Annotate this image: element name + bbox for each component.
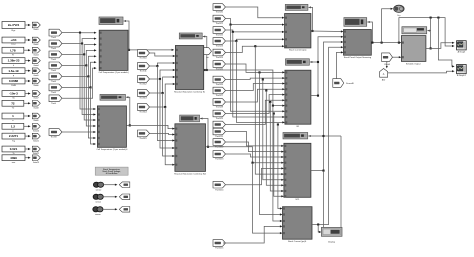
svg-text:Clock5: Clock5 xyxy=(384,64,391,66)
wire tag T5 to block A input 5 xyxy=(225,46,283,52)
wire tag T3 branch to block B input 9 xyxy=(232,31,234,33)
from tag H6 xyxy=(138,130,150,137)
from tag From40 xyxy=(333,79,344,88)
svg-text:sensor: sensor xyxy=(96,188,102,191)
svg-text:TheG: TheG xyxy=(51,70,56,72)
svg-text:TheG: TheG xyxy=(51,37,56,39)
wire tag T13 to block C input 2 xyxy=(225,142,283,152)
from tag T1 xyxy=(213,4,226,11)
wire top rail branch to scope 2 input 1 xyxy=(437,17,439,19)
constant Rgc value 2e-3*2/4 xyxy=(2,22,25,29)
wire From40 up to block E input 5 xyxy=(337,52,343,78)
svg-text:Scp: Scp xyxy=(397,15,400,17)
svg-text:wm: wm xyxy=(12,162,16,164)
from tag H1 xyxy=(138,50,150,57)
svg-text:TheG215: TheG215 xyxy=(215,248,224,250)
svg-text:TheG21: TheG21 xyxy=(216,23,224,25)
wire tag T6 to block B input 1 xyxy=(225,64,284,72)
wire branch U4 output down to block D input 5 xyxy=(251,162,253,164)
svg-text:& Fan Airflow: & Fan Airflow xyxy=(106,172,118,175)
svg-text:TheG29: TheG29 xyxy=(216,118,224,120)
subsystem U4 Reactant Saturation 1 xyxy=(175,124,206,172)
goto tag G1 xyxy=(32,22,40,28)
wire branch up to top rail toward scope 1 xyxy=(398,42,400,44)
wire from tag H1 to subsystem U3 input 2 xyxy=(150,53,175,56)
display bar DC xyxy=(283,133,308,139)
wire tag T2 branch to block B input 8 xyxy=(229,24,231,26)
wire constant Ts to tag xyxy=(25,148,30,150)
svg-text:TheG8: TheG8 xyxy=(50,137,57,139)
from tag T11 xyxy=(213,121,226,128)
wire constant wm to tag xyxy=(25,157,30,159)
svg-text:TOC: TOC xyxy=(11,44,16,46)
wire branch down to subsystem U2 input 1 xyxy=(79,32,81,34)
svg-text:4399: 4399 xyxy=(10,156,17,160)
goto tag G8 xyxy=(32,101,40,107)
display bar D1 xyxy=(99,17,123,25)
wire constant k to tag xyxy=(25,60,30,62)
wire branch tag H2 down to subsystem U4 xyxy=(156,65,158,67)
wire constant T2 to tag xyxy=(24,102,30,104)
wire tag T10 to block B input 5 xyxy=(225,95,284,114)
svg-text:Goto2: Goto2 xyxy=(33,43,38,46)
wire display bar D2 feed loop xyxy=(126,96,128,98)
wire display bar D1 feed loop xyxy=(124,20,126,22)
wire block D output to numeric display xyxy=(317,223,319,225)
wire tag T8 to block B input 3 xyxy=(225,84,284,91)
from tag T7 xyxy=(213,76,226,83)
wire tag T3 to block A input 3 xyxy=(225,30,283,32)
wire block B output up to block E input 2 with display feed xyxy=(311,37,342,96)
svg-text:Cell Temperature (1 per module: Cell Temperature (1 per module) xyxy=(99,71,129,74)
svg-text:Goto4: Goto4 xyxy=(33,64,38,67)
wire from tag F3 to subsystem U1 input 3 xyxy=(62,45,95,55)
wire branch down to subsystem U2 input 5 xyxy=(87,75,89,77)
svg-text:Display: Display xyxy=(328,242,336,244)
wire block F output to scope 1 input 1 xyxy=(426,43,453,49)
subsystem U1 Cell Temperature xyxy=(99,30,128,70)
from tag T16 xyxy=(213,240,226,247)
wire constant Vo to tag xyxy=(25,93,30,95)
block D Stack Current 1 xyxy=(283,207,313,240)
wire tag T9 branch down to block C input 9 xyxy=(269,101,271,103)
goto tag G3 xyxy=(32,47,40,53)
wire tag T7 to block B input 2 xyxy=(225,78,284,79)
constant R value L78 xyxy=(2,47,24,53)
wire from tag F4 to subsystem U1 input 4 xyxy=(62,50,95,65)
wire branch down to subsystem U2 input 6 xyxy=(89,86,91,88)
wire from tag F1 to subsystem U1 input 1 xyxy=(62,32,95,34)
block E Stack Panel Output Summing xyxy=(344,30,372,56)
wire top rail branch down through display bar DF to block F output xyxy=(430,17,432,19)
svg-text:TheG214: TheG214 xyxy=(215,189,224,191)
wire display bar DA feed loop xyxy=(309,6,311,8)
clock source block xyxy=(382,53,393,62)
wire goto tag A to scope 2 input 2 xyxy=(388,71,454,73)
wire constant R to tag xyxy=(24,49,30,51)
from tag T4 xyxy=(213,38,226,45)
wire tag T4 branch to block B input 10 xyxy=(235,40,237,42)
wire subsystem U4 output to block C input 4 xyxy=(206,147,283,163)
wire tag T2 to block A input 2 xyxy=(225,19,283,25)
svg-text:0.0688: 0.0688 xyxy=(9,79,19,83)
svg-text:TheG212: TheG212 xyxy=(215,147,224,149)
svg-text:Goto13: Goto13 xyxy=(33,161,39,164)
svg-text:TheG26: TheG26 xyxy=(216,84,224,86)
block F Simulink Output xyxy=(401,36,426,62)
wire constant x to tag xyxy=(24,125,30,127)
svg-text:1.6e-19: 1.6e-19 xyxy=(8,69,19,73)
svg-text:TheG13: TheG13 xyxy=(139,98,147,100)
svg-text:From40: From40 xyxy=(346,82,354,85)
svg-text:TheG27: TheG27 xyxy=(216,95,224,97)
goto tag G11 xyxy=(32,133,40,139)
wire from tag F2 to subsystem U1 input 2 xyxy=(62,39,95,44)
wire tag T7 branch down to block C input 7 xyxy=(262,78,264,80)
wire branch tag H3 down to subsystem U4 xyxy=(159,78,161,80)
wire block C output up to block E input 3 xyxy=(311,42,342,171)
svg-text:A/D: A/D xyxy=(382,78,386,81)
block B subsystem xyxy=(285,70,311,124)
from tag H2 xyxy=(138,63,150,70)
constant q value 1.6e-19 xyxy=(2,68,25,74)
wire branch tag H4 down to subsystem U4 xyxy=(162,92,164,94)
wire tag T15 up to block C input 5 xyxy=(225,168,283,184)
svg-text:A Graph1: A Graph1 xyxy=(457,74,467,77)
wire clock branch down to goto tag A xyxy=(386,62,388,68)
svg-text:1.2: 1.2 xyxy=(11,124,16,128)
from tag T6 xyxy=(213,61,226,68)
svg-text:Cell Temperature (1 per module: Cell Temperature (1 per module)1 xyxy=(96,148,128,151)
svg-text:TheG12: TheG12 xyxy=(139,84,147,86)
wire tag T11 branch down to block D input 1 xyxy=(277,123,279,125)
svg-text:Goto5: Goto5 xyxy=(33,74,38,77)
goto tag H0 xyxy=(204,48,212,55)
wire constant n to tag xyxy=(24,115,30,117)
constant Tig value 2.2271 xyxy=(2,133,25,139)
numeric display block xyxy=(321,227,342,236)
wire oval 1 to from tag xyxy=(104,184,117,186)
goto tag G13 xyxy=(32,155,40,161)
wire tag T9 to block B input 4 xyxy=(225,89,284,102)
svg-text:-10e-3: -10e-3 xyxy=(9,92,18,96)
legend text box xyxy=(95,167,128,175)
wire branch down to subsystem U2 input 3 xyxy=(83,53,85,55)
goto tag G2 xyxy=(32,37,40,43)
from tag F8 xyxy=(49,129,62,136)
goto tag G9 xyxy=(32,113,40,119)
input oval pair 2 xyxy=(93,194,99,199)
wire from tag F6 to subsystem U1 input 6 xyxy=(62,62,95,87)
from tag H4 xyxy=(138,90,150,97)
wire oval 2 to from tag xyxy=(103,196,116,198)
wire display bar DE feed loop xyxy=(367,21,369,23)
from tag F4 xyxy=(49,62,62,69)
svg-text:TheG22: TheG22 xyxy=(216,35,224,37)
wire tag T4 to block A input 4 xyxy=(225,39,283,41)
svg-text:Stack Current (ips)1: Stack Current (ips)1 xyxy=(288,240,307,243)
wire display bar DC feed xyxy=(308,135,310,137)
from tag F1 xyxy=(49,29,62,36)
from tag P2 xyxy=(119,194,130,200)
wire constant q to tag xyxy=(25,70,30,72)
wire branch down to subsystem U2 input 2 xyxy=(81,42,83,44)
wire constant TOC to tag xyxy=(25,39,30,41)
svg-text:TheG: TheG xyxy=(51,81,56,83)
svg-text:2.2271: 2.2271 xyxy=(9,134,19,138)
wire from tag F8 to subsystem U2 xyxy=(62,131,95,133)
svg-text:L78: L78 xyxy=(10,48,16,52)
display bar DE xyxy=(344,18,367,27)
svg-text:Reactant Saturation Control (p: Reactant Saturation Control (p S)1 xyxy=(174,172,207,175)
svg-text:72: 72 xyxy=(11,101,15,105)
display bar D2 xyxy=(100,94,125,100)
goto tag G4 xyxy=(32,58,40,64)
svg-text:TheG24: TheG24 xyxy=(216,57,224,59)
scope block A Graph1 xyxy=(457,65,467,74)
constant T2 value 72 xyxy=(2,100,24,106)
from tag F2 xyxy=(49,40,62,47)
svg-text:TheG10: TheG10 xyxy=(139,58,147,60)
goto tag G7 xyxy=(32,91,40,97)
constant Ts value 0.021 xyxy=(2,146,25,152)
svg-text:Goto1: Goto1 xyxy=(33,28,38,31)
svg-text:0.021: 0.021 xyxy=(10,147,18,151)
svg-text:Goto8: Goto8 xyxy=(33,107,38,110)
constant wm value 4399 xyxy=(2,155,25,161)
svg-text:Simulink Output: Simulink Output xyxy=(406,62,421,65)
svg-text:Goto9: Goto9 xyxy=(33,119,38,122)
wire oval 3 to from tag xyxy=(103,208,116,210)
from tag H3 xyxy=(138,76,150,83)
svg-text:TheG14: TheG14 xyxy=(139,112,147,114)
goto tag G6 xyxy=(32,78,40,84)
goto tag G12 xyxy=(32,146,40,152)
from tag T14 xyxy=(213,151,226,158)
from tag P1 xyxy=(119,182,130,188)
display bar DA xyxy=(285,4,308,10)
input oval pair 3 xyxy=(93,207,99,212)
svg-text:Stack Panel Output Summing: Stack Panel Output Summing xyxy=(344,56,372,59)
block A Stack Current xyxy=(285,14,311,48)
display bar DB xyxy=(286,59,310,65)
wire block D output up to block E input 4 xyxy=(312,47,342,224)
svg-text:TheG: TheG xyxy=(51,103,56,105)
svg-text:Stack Current (ips): Stack Current (ips) xyxy=(289,49,307,52)
from tag T3 xyxy=(213,27,226,34)
wire subsystem U1 output to subsystem U3 xyxy=(128,49,173,51)
goto tag G10 xyxy=(32,124,40,130)
wire block A output to block E input 1 xyxy=(311,30,342,33)
wire constant Rgc to tag xyxy=(25,24,30,26)
wire from tag H3 to subsystem U3 input 4 xyxy=(150,70,175,79)
from tag H5 xyxy=(138,104,150,111)
wire branch to numeric display via x341 xyxy=(324,135,342,137)
svg-text:TheG15: TheG15 xyxy=(139,138,147,140)
wire from tag F7 to subsystem U1 input 7 xyxy=(62,68,95,98)
constant TOC value +2/4 xyxy=(2,37,25,43)
svg-text:+2/4: +2/4 xyxy=(11,38,17,42)
wire tag T8 branch down to block C input 8 xyxy=(265,89,267,91)
svg-text:DHB: DHB xyxy=(11,85,16,87)
display bar D3 xyxy=(179,33,202,39)
svg-text:Goto11: Goto11 xyxy=(33,139,39,142)
constant k value 1.38e-23 xyxy=(2,58,25,64)
svg-text:Goto10: Goto10 xyxy=(33,130,39,133)
svg-text:TheG: TheG xyxy=(51,59,56,61)
wire tag T14 to block C input 3 xyxy=(225,154,283,157)
constant DHB value 0.0688 xyxy=(2,78,25,84)
svg-text:Goto6: Goto6 xyxy=(33,84,38,87)
input oval pair 1 xyxy=(93,182,99,187)
svg-text:TheG20: TheG20 xyxy=(216,12,224,14)
svg-text:sensor: sensor xyxy=(95,213,101,216)
wire branch tag H5 down to subsystem U4 xyxy=(164,106,166,108)
constant Vo value -10e-3 xyxy=(2,91,25,97)
constant n value 1 xyxy=(2,113,24,119)
svg-text:TheG213: TheG213 xyxy=(215,159,224,161)
from tag F7 xyxy=(49,95,62,102)
svg-text:1.38e-23: 1.38e-23 xyxy=(8,59,20,63)
wire tag T10 branch down to block C input 10 xyxy=(273,112,275,114)
subsystem U3 Reactant Saturation xyxy=(175,46,203,90)
wire from tag H2 to subsystem U3 input 3 xyxy=(150,63,175,66)
from tag T10 xyxy=(213,110,226,117)
svg-text:TheG11: TheG11 xyxy=(139,71,147,73)
wire tag T6 branch down to block D input 2 xyxy=(258,71,260,73)
svg-text:TheG211: TheG211 xyxy=(215,136,224,138)
svg-text:TheG: TheG xyxy=(51,48,56,50)
from tag F6 xyxy=(49,84,62,91)
svg-text:Goto7: Goto7 xyxy=(33,97,38,100)
from tag T15 xyxy=(213,181,226,188)
from tag T8 xyxy=(213,87,226,94)
wire tag T1 to block A input 1 xyxy=(225,7,283,18)
display bar DF xyxy=(402,27,427,34)
svg-text:A Graph: A Graph xyxy=(458,50,466,53)
block C subsystem xyxy=(284,143,311,197)
from tag T2 xyxy=(213,15,226,22)
wire branch U3 output down to block D input 3 xyxy=(272,105,274,107)
svg-text:TheG25: TheG25 xyxy=(216,69,224,71)
wire branch up to terminator ellipse xyxy=(381,42,383,44)
wire from tag F5 to subsystem U1 input 5 xyxy=(62,56,95,76)
svg-text:TheG28: TheG28 xyxy=(216,107,224,109)
wire subsystem U2 output to subsystem U4 xyxy=(126,125,173,128)
from tag T12 xyxy=(213,128,226,135)
wire tag T5 branch down to block C input 6 xyxy=(254,45,256,47)
wire clock to block F input 2 xyxy=(393,56,401,58)
wire from tag H5 to subsystem U3 input 6 xyxy=(150,84,175,107)
from tag F3 xyxy=(49,51,62,58)
from tag T5 xyxy=(213,49,226,56)
wire subsystem U3 output to block B input 7 xyxy=(204,69,206,71)
svg-text:Reactant Saturation Control (p: Reactant Saturation Control (p S) xyxy=(174,90,205,93)
subsystem U2 Cell Temperature 1 xyxy=(97,106,126,147)
wire block E output to block F input 1 xyxy=(371,42,400,44)
wire display bar D3 feed loop xyxy=(203,35,205,37)
goto tag G5 xyxy=(32,68,40,74)
wire constant Tig to tag xyxy=(25,135,30,137)
svg-text:TheG: TheG xyxy=(51,92,56,94)
from tag F5 xyxy=(49,73,62,80)
from tag T9 xyxy=(213,99,226,106)
wire constant DHB to tag xyxy=(25,80,30,82)
wire tag T11 to block B input 6 xyxy=(225,100,284,124)
svg-text:2e-3*2/4: 2e-3*2/4 xyxy=(8,23,20,27)
goto tag A xyxy=(380,69,388,78)
wire from tag H4 to subsystem U3 input 5 xyxy=(150,77,175,93)
wire tag T16 up to block D input 4 xyxy=(223,226,281,243)
from tag T13 xyxy=(213,139,226,146)
from tag P3 xyxy=(119,207,130,213)
svg-text:sensor: sensor xyxy=(95,201,101,204)
svg-text:Goto3: Goto3 xyxy=(33,53,38,56)
wire branch block C output down to numeric display xyxy=(323,171,325,228)
constant x value 1.2 xyxy=(2,123,24,129)
wire display bar D4 feed loop xyxy=(200,117,202,119)
scope block A Graph xyxy=(457,41,467,50)
display bar D4 xyxy=(180,115,200,122)
wire from tag H6 to subsystem U4 input 2 xyxy=(150,133,174,134)
terminator ellipse xyxy=(394,5,404,12)
wire tag T12 to block C input 1 xyxy=(225,132,283,146)
svg-text:TheG23: TheG23 xyxy=(216,46,224,48)
wire branch down to subsystem U2 input 4 xyxy=(85,64,87,66)
